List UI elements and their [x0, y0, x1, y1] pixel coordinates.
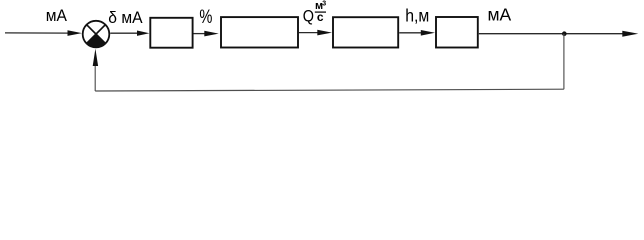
block 2	[221, 17, 298, 47]
arrowhead into block1	[137, 31, 149, 36]
svg-text:мА: мА	[46, 6, 67, 25]
arrowhead into block3	[317, 30, 332, 36]
wire feedback bottom run	[95, 89, 564, 91]
svg-text:δ мА: δ мА	[108, 8, 142, 27]
input arrowhead	[68, 30, 82, 36]
output arrowhead	[622, 31, 638, 37]
svg-text:с: с	[317, 10, 324, 24]
wire block1 to block2	[194, 33, 207, 35]
arrowhead into block4	[421, 30, 435, 36]
wire feedback up into comparator	[94, 58, 96, 91]
fraction bar	[315, 11, 326, 13]
filled bottom sector of comparator	[87, 34, 106, 47]
wire input line	[5, 32, 69, 34]
block 3	[333, 17, 398, 47]
block 4	[436, 17, 478, 48]
svg-text:мА: мА	[488, 4, 512, 24]
block 1	[150, 18, 192, 48]
node junction dot	[562, 31, 567, 36]
arrowhead toward block2	[204, 31, 218, 37]
wire feedback down from node	[563, 34, 565, 89]
X line of comparator (NE-SW)	[87, 25, 106, 44]
wire block4 to output	[479, 33, 623, 35]
svg-text:h,м: h,м	[405, 5, 429, 25]
svg-text:%: %	[199, 5, 212, 28]
svg-text:Q: Q	[303, 8, 314, 26]
svg-text:3: 3	[322, 0, 326, 7]
feedback arrowhead into comparator	[93, 49, 98, 66]
wire block3 to block4	[399, 32, 423, 34]
wire circle to block1	[110, 32, 140, 34]
wire block2 to block3	[299, 32, 319, 34]
X line of comparator (NW-SE)	[87, 25, 106, 44]
summing junction comparator circle	[83, 21, 110, 48]
